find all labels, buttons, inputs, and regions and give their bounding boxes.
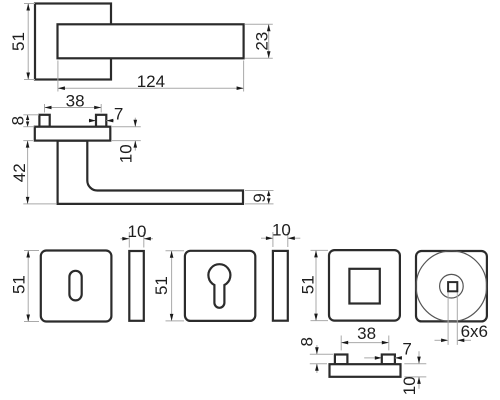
svg-text:51: 51: [9, 275, 28, 294]
dim 51 R2 extension lines: [166, 250, 185, 252]
svg-text:9: 9: [250, 193, 269, 202]
svg-text:10: 10: [116, 144, 135, 163]
lever profile (neck + grip): [58, 141, 243, 204]
extension line 124 left: [57, 61, 59, 92]
dim 8 extension lines: [310, 353, 333, 355]
dim 23 line: [268, 24, 270, 58]
dim 7 left arrow: [364, 357, 381, 359]
dim 9 arrows: [267, 191, 271, 197]
lever bar (top view): [58, 24, 244, 58]
dim 38 extension ticks: [44, 104, 46, 113]
spacer plate SP2: [273, 251, 288, 321]
dim 51 R2 line: [171, 251, 173, 321]
dim 10 extension lines (plate thickness): [111, 126, 141, 128]
dim 38 line: [45, 107, 102, 109]
svg-text:51: 51: [298, 275, 317, 294]
keyhole BB obround: [69, 271, 81, 301]
rosette plate: [330, 364, 401, 377]
svg-text:8: 8: [298, 337, 317, 346]
leader lines 6x6: [447, 292, 449, 345]
dim 51 R1 line: [27, 251, 29, 322]
large circle: [416, 251, 487, 322]
dim 124 arrows: [58, 86, 65, 90]
dim 51 R3 arrows: [314, 250, 318, 257]
svg-text:7: 7: [402, 340, 411, 359]
dim 51 arrows: [26, 4, 30, 11]
dim 42 extension lines: [23, 140, 33, 142]
dim 10 SP2 extension ticks: [272, 232, 274, 247]
dim 51 R2 arrows: [170, 251, 174, 258]
dim 51 R3 line: [315, 250, 317, 320]
svg-text:8: 8: [9, 116, 28, 125]
dim 23 extension lines: [245, 23, 273, 25]
dim 10 arrows outside: [418, 351, 420, 363]
svg-text:10: 10: [272, 220, 291, 239]
dim 38 arrows: [45, 106, 52, 110]
svg-text:10: 10: [400, 376, 419, 395]
spacer plate SP1: [129, 251, 144, 321]
svg-text:6x6: 6x6: [461, 322, 488, 341]
dim 7 right arrow: [395, 357, 402, 359]
dim 9 extension lines: [245, 190, 274, 192]
dim 10 extension lines: [404, 363, 426, 365]
peg right: [382, 355, 395, 365]
dim 10 SP1 arrows outside: [121, 238, 130, 240]
svg-text:23: 23: [252, 32, 271, 51]
dim 51 extension lines: [24, 3, 35, 5]
fixing peg left: [39, 115, 49, 127]
rosette square (top view): [35, 4, 111, 80]
dim 23 arrows: [267, 24, 271, 31]
rosette R4 (blind with spindle): [416, 251, 487, 321]
dim 8 line: [27, 115, 29, 127]
peg left: [335, 355, 348, 365]
dim 38 extension ticks: [340, 336, 342, 351]
fixing peg right: [96, 115, 106, 127]
dim 51 R3 extension lines: [311, 249, 329, 251]
svg-text:51: 51: [152, 276, 171, 295]
dim 124 line: [58, 87, 244, 89]
dim 8 arrows outside: [316, 345, 318, 354]
dim 7 left arrow: [89, 120, 95, 122]
dim 10 arrows outside: [134, 118, 136, 127]
svg-text:51: 51: [9, 32, 28, 51]
dim 8 arrows: [26, 115, 29, 120]
svg-text:42: 42: [10, 163, 29, 182]
svg-text:38: 38: [357, 324, 376, 343]
svg-text:7: 7: [114, 105, 123, 124]
dim 51 R1 arrows: [26, 251, 30, 258]
dim 8 extension lines: [23, 114, 39, 116]
dim 51 line: [27, 4, 29, 80]
svg-text:38: 38: [66, 91, 85, 110]
dim 38 line: [341, 342, 389, 344]
svg-text:124: 124: [137, 72, 165, 91]
extension line 124 right: [243, 61, 245, 92]
dim 38 arrows: [341, 341, 348, 345]
square spindle hole: [349, 269, 379, 304]
dim 7 right arrow: [106, 120, 114, 122]
dim 9 line: [268, 191, 270, 204]
small square hole 6x6: [448, 282, 457, 291]
middle circle: [440, 274, 464, 298]
rosette plate (side view): [35, 127, 111, 141]
rosette R1 (key BB): [41, 251, 112, 322]
dim 10 SP2 arrows outside: [261, 237, 273, 239]
PZ cylinder hole: [208, 264, 230, 308]
dim 6x6 arrows: [435, 339, 448, 341]
rosette R2 (PZ): [185, 251, 255, 321]
dim 42 arrows: [26, 141, 30, 148]
svg-text:10: 10: [128, 222, 147, 241]
dim 42 line: [27, 141, 29, 204]
dim 51 R1 extension lines: [24, 250, 39, 252]
dim 10 SP1 extension ticks: [128, 232, 130, 248]
rosette R3 (square hole): [329, 250, 400, 321]
